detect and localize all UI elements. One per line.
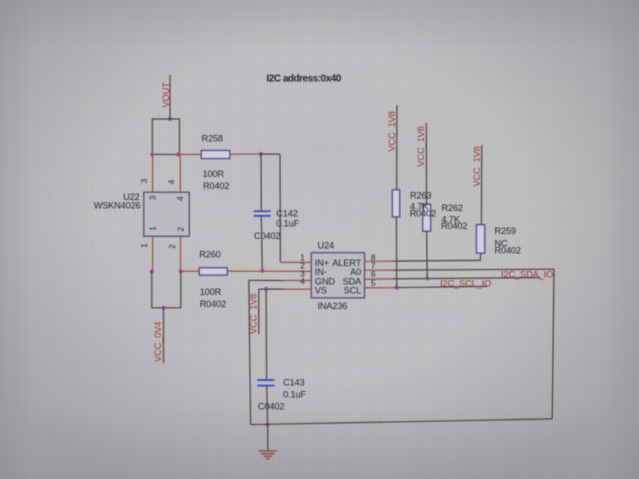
svg-text:R259: R259 [495,226,516,236]
net label VCC_1V8 second [416,126,426,166]
svg-text:3: 3 [140,178,149,183]
svg-text:R260: R260 [199,249,220,259]
svg-text:VCC_1V8: VCC_1V8 [387,111,397,151]
U24 pin name A0 [350,267,361,277]
wire R260 left pin [181,270,199,272]
svg-text:VCC_1V8: VCC_1V8 [248,294,258,334]
U22 pin number 1 outside [140,243,149,248]
svg-text:R0402: R0402 [200,299,226,309]
footprint C0402 of C143 [258,402,284,412]
value 100R of R260 [200,287,222,297]
svg-text:4: 4 [176,196,185,201]
svg-text:R0402: R0402 [495,245,521,255]
U24 pin name SDA [343,277,363,287]
resistor R262 [423,204,431,231]
value 4.7K of R262 [442,215,461,225]
junction row B right [179,269,183,273]
label U22 [123,192,139,202]
svg-text:7: 7 [371,262,376,271]
junction R258 C142 [259,152,263,156]
junction SCL R263 [395,286,399,290]
svg-text:R258: R258 [202,133,223,143]
U22 pin number 3 outside [140,178,149,183]
wire VOUT stub [169,75,171,119]
wire loop below U22 [152,271,181,308]
label R262 [442,203,463,213]
wire U24 pin 3 dark segment [249,279,283,281]
svg-text:1: 1 [140,243,149,248]
net label VOUT [161,82,171,108]
svg-text:C0402: C0402 [254,231,280,241]
svg-text:R0402: R0402 [441,221,467,231]
net label I2C_SCL_IO [440,278,491,288]
U22 pin number 2 outside [168,244,177,249]
capacitor C142 [254,211,271,216]
U24 pin name VS [315,286,327,296]
U24 pin number 4 [300,277,305,286]
svg-text:0.1uF: 0.1uF [276,219,299,229]
wire C142 top [260,154,262,211]
wire R262 to SDA [426,231,429,278]
note I2C address:0x40 [267,74,342,85]
svg-text:VCC_1V8: VCC_1V8 [416,126,426,166]
resistor R258 [201,150,230,158]
wire U24 pin 1 [280,261,311,263]
label R259 [495,226,516,236]
wire C143 top [265,289,268,380]
svg-text:VCC_1V8: VCC_1V8 [472,146,482,186]
svg-text:1: 1 [149,226,158,231]
wire U24 pin 8 stub [365,260,393,262]
svg-text:INA236: INA236 [318,301,348,311]
U22 pin number 4 outside [168,179,177,184]
label C142 [276,209,297,219]
net label VCC_1V8 first [387,111,397,151]
net label VCC_1V8 third [472,146,482,186]
U22 pin 3 wire top left [152,155,154,192]
label C143 [283,377,304,387]
label U24 [318,240,334,250]
net label VCC_1V8 at VS [248,294,258,334]
U24 pin name IN- [315,267,327,277]
svg-text:2: 2 [168,244,177,249]
U22 pin number 3 inside [149,195,158,200]
junction VCC_0V4 tap [162,306,166,310]
part INA236 [318,301,348,311]
value NC of R259 [495,238,508,248]
junction VOUT [168,117,172,121]
U22 pin 4 wire top right [179,155,181,192]
value 100R of R258 [203,169,225,179]
svg-text:R262: R262 [442,203,463,213]
U24 pin number 5 [371,279,376,288]
label R263 [410,191,431,201]
wire ALERT to R259 [479,253,481,260]
junction row B left [150,269,154,273]
wire SDA row [393,278,541,279]
U24 pin name GND [315,277,336,287]
svg-text:VS: VS [315,286,327,296]
junction SDA R262 [425,276,429,280]
wire ground stub [267,424,269,450]
svg-text:100R: 100R [200,287,222,297]
svg-text:4: 4 [300,277,305,286]
wire VCC_1V8 to R262 [425,123,427,204]
U24 pin number 6 [371,270,376,279]
svg-text:R0402: R0402 [410,208,436,218]
svg-text:R0402: R0402 [203,181,229,191]
U22 pin number 4 inside [176,196,185,201]
U24 pin name IN+ [315,258,329,268]
svg-text:2: 2 [176,226,185,231]
value 0.1uF of C142 [276,219,299,229]
U22 pin number 1 inside [149,226,158,231]
wire U24 pin 5 stub [365,287,393,289]
wire U24 pin 4 dark segment [259,288,283,290]
U22 pin 2 wire bottom right [180,236,182,271]
U24 pin number 2 [300,261,305,270]
U22 pin 1 wire bottom left [152,236,154,271]
wire U24 pin 6 stub [365,278,393,280]
svg-text:U24: U24 [318,240,334,250]
svg-text:SCL: SCL [344,286,362,296]
U24 pin number 1 [300,253,305,262]
value 4.7K of R263 [410,201,429,211]
junction ground node [266,422,270,426]
svg-text:C143: C143 [283,377,304,387]
svg-text:C142: C142 [276,209,297,219]
wire A0 loop vertical [552,269,554,419]
footprint R0402 of R260 [200,299,226,309]
svg-text:I2C_SCL_IO: I2C_SCL_IO [440,278,491,288]
footprint R0402 of R263 [410,208,436,218]
junction VS node [264,287,268,291]
svg-text:WSKN4026: WSKN4026 [94,201,141,211]
wire SCL row [393,286,488,287]
label R258 [202,133,223,143]
svg-text:C0402: C0402 [258,402,284,412]
wire R258 row left segment [152,153,178,155]
capacitor C143 [257,380,274,386]
wire C142 bottom [261,216,262,271]
U24 pin number 7 [371,262,376,271]
value 0.1uF of C143 [283,389,306,399]
wire GND descent [249,280,251,424]
net label I2C_SDA_IO [501,270,553,280]
resistor R260 [199,268,227,275]
wire R258 left pin [178,153,201,155]
net label VCC_0V4 [153,322,163,362]
svg-text:0.1uF: 0.1uF [283,389,306,399]
wire ALERT row [393,259,481,262]
wire U24 pin 3 stub [283,280,311,282]
wire R260 to U24 pin 2 [227,270,311,272]
wire VCC_1V8 stub at VS [258,289,260,334]
ground [259,451,278,459]
resistor R259 [476,225,484,253]
svg-text:6: 6 [371,270,376,279]
svg-text:100R: 100R [203,169,225,179]
wire R263 to SCL [395,217,397,288]
U22 pin number 2 inside [176,226,185,231]
U24 pin number 8 [371,253,376,262]
component U24 box [311,253,364,298]
wire row A to corner [261,153,280,155]
svg-text:5: 5 [371,279,376,288]
part WSKN4026 [94,201,141,211]
label R260 [199,249,220,259]
svg-text:A0: A0 [350,267,361,277]
wire U24 pin 4 stub [283,288,311,290]
svg-text:I2C_SDA_IO: I2C_SDA_IO [501,270,553,280]
wire R258 right pin [230,153,261,155]
wire GND bottom run [251,419,553,425]
U24 pin number 3 [300,269,305,278]
component U22 box [144,192,190,236]
U24 pin name SCL [344,286,362,296]
wire A0 row [393,268,554,271]
wire U24 pin 7 stub [365,269,393,271]
footprint C0402 of C142 [254,231,280,241]
svg-text:I2C address:0x40: I2C address:0x40 [267,74,342,85]
wire VCC_0V4 stub [163,308,165,363]
svg-text:IN-: IN- [315,267,327,277]
footprint R0402 of R259 [495,245,521,255]
junction row A mid [176,153,180,157]
svg-text:3: 3 [149,195,158,200]
wire loop above U22 [152,119,179,155]
wire down to pin 1 [279,154,281,262]
svg-text:R263: R263 [410,191,431,201]
wire VCC_1V8 to R263 [396,105,398,190]
junction row A left [150,152,154,156]
junction C142 row [260,269,264,273]
footprint R0402 of R262 [441,221,467,231]
svg-text:VCC_0V4: VCC_0V4 [153,322,163,362]
wire VCC_1V8 to R259 [480,145,482,225]
footprint R0402 of R258 [203,181,229,191]
resistor R263 [392,190,399,217]
U24 pin name ALERT [332,258,361,268]
wire C143 bottom [266,386,269,425]
svg-text:4: 4 [168,179,177,184]
